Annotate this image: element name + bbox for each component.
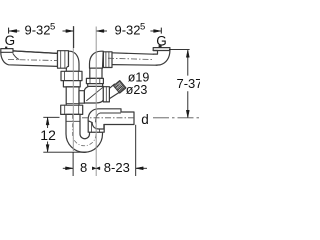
right dim arrow right [154,30,161,33]
dim 7-37 vertical line [187,50,189,117]
node tee socket on left drop [79,91,84,104]
left dim arrow left [9,30,17,33]
gray centerline left drop [72,26,74,151]
svg-text:8-23: 8-23 [104,160,130,175]
nozzle dishwasher connector body [109,84,120,99]
wire outlet elbow and horizontal outlet pipe [88,109,134,129]
node union nut left drop [61,71,82,80]
wire left inlet inner elbow arc [13,54,19,60]
node nozzle nut [103,87,109,102]
wire drop socket step [66,102,79,104]
dim 7-37 top extension [169,49,190,51]
wire right G elbow [153,51,170,66]
nozzle hatch [115,82,125,92]
svg-text:7-37: 7-37 [177,76,201,91]
left dim arrow right [66,30,73,33]
dim 12 top tick [43,116,59,118]
dim 8 left arrow [66,167,73,170]
wire dashdot centerline right inlet [108,58,152,59]
svg-text:ø23: ø23 [126,83,148,97]
svg-text:9-32: 9-32 [115,23,141,38]
dim 12 vertical line [47,118,49,152]
dim 8 left ext line [72,153,74,177]
wire trap tube dashdot centerline [73,115,97,146]
dim 8-23 right arrow [136,167,143,170]
wire right inlet pipe body [112,53,157,65]
dim 12 down arrow [46,145,49,152]
dim 7-37 down arrow [186,110,189,117]
dim 12 up arrow [46,118,49,125]
node left G flange [1,49,13,53]
svg-text:12: 12 [40,127,56,143]
nozzle ribbed collar [114,81,126,93]
node trap outlet nut [88,121,104,132]
gray centerline right drop [95,27,97,177]
svg-text:8: 8 [80,160,87,175]
svg-text:d: d [141,112,149,127]
wire dashdot centerline left inlet [8,60,58,61]
dimension group [9,26,190,176]
dim bowtie arrows at middle ext [92,167,96,170]
dim 12 bottom tick [43,151,86,153]
svg-text:5: 5 [50,22,55,33]
wire right drop stub [88,84,103,87]
node trap inlet nut [61,105,83,114]
right 9-32.5 dim arrow left [97,30,104,33]
node right G flange [153,48,170,51]
trap U-bend [66,114,103,152]
svg-text:G: G [5,33,16,48]
dim 8-23 right ext line [135,125,137,176]
wire branch elbow seam [87,87,103,100]
svg-text:G: G [156,33,167,48]
wire trap arm seam [66,120,80,122]
svg-text:5: 5 [140,22,145,33]
wire d centerline extension [153,117,199,119]
left dim right extension line [73,26,75,48]
wire right drop elbow [90,51,104,68]
wire left inlet pipe top edge [13,51,58,54]
dim 7-37 up arrow [186,50,189,57]
wire left drop elbow [66,51,79,71]
left 9-32.5 dim tick left [8,28,10,34]
wire outlet elbow inner arc [95,113,120,122]
svg-text:9-32: 9-32 [25,23,51,38]
wire left drop pipe [66,87,79,105]
wire left inlet pipe body [1,51,58,67]
node union nut U-left-inlet [58,51,69,68]
wire dashdot centerline outlet [82,117,134,119]
node union nut right inlet [103,52,112,68]
node union nut right drop [90,68,102,78]
right dim tick right [160,28,162,34]
right branch elbow block [84,86,103,103]
